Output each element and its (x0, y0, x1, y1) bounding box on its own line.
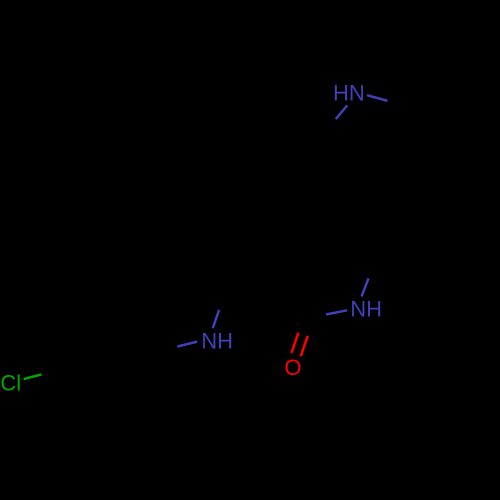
svg-text:Cl: Cl (0, 371, 21, 396)
svg-text:NH: NH (350, 296, 382, 321)
svg-text:NH: NH (201, 329, 233, 354)
svg-text:O: O (284, 355, 301, 380)
svg-text:HN: HN (333, 80, 365, 105)
